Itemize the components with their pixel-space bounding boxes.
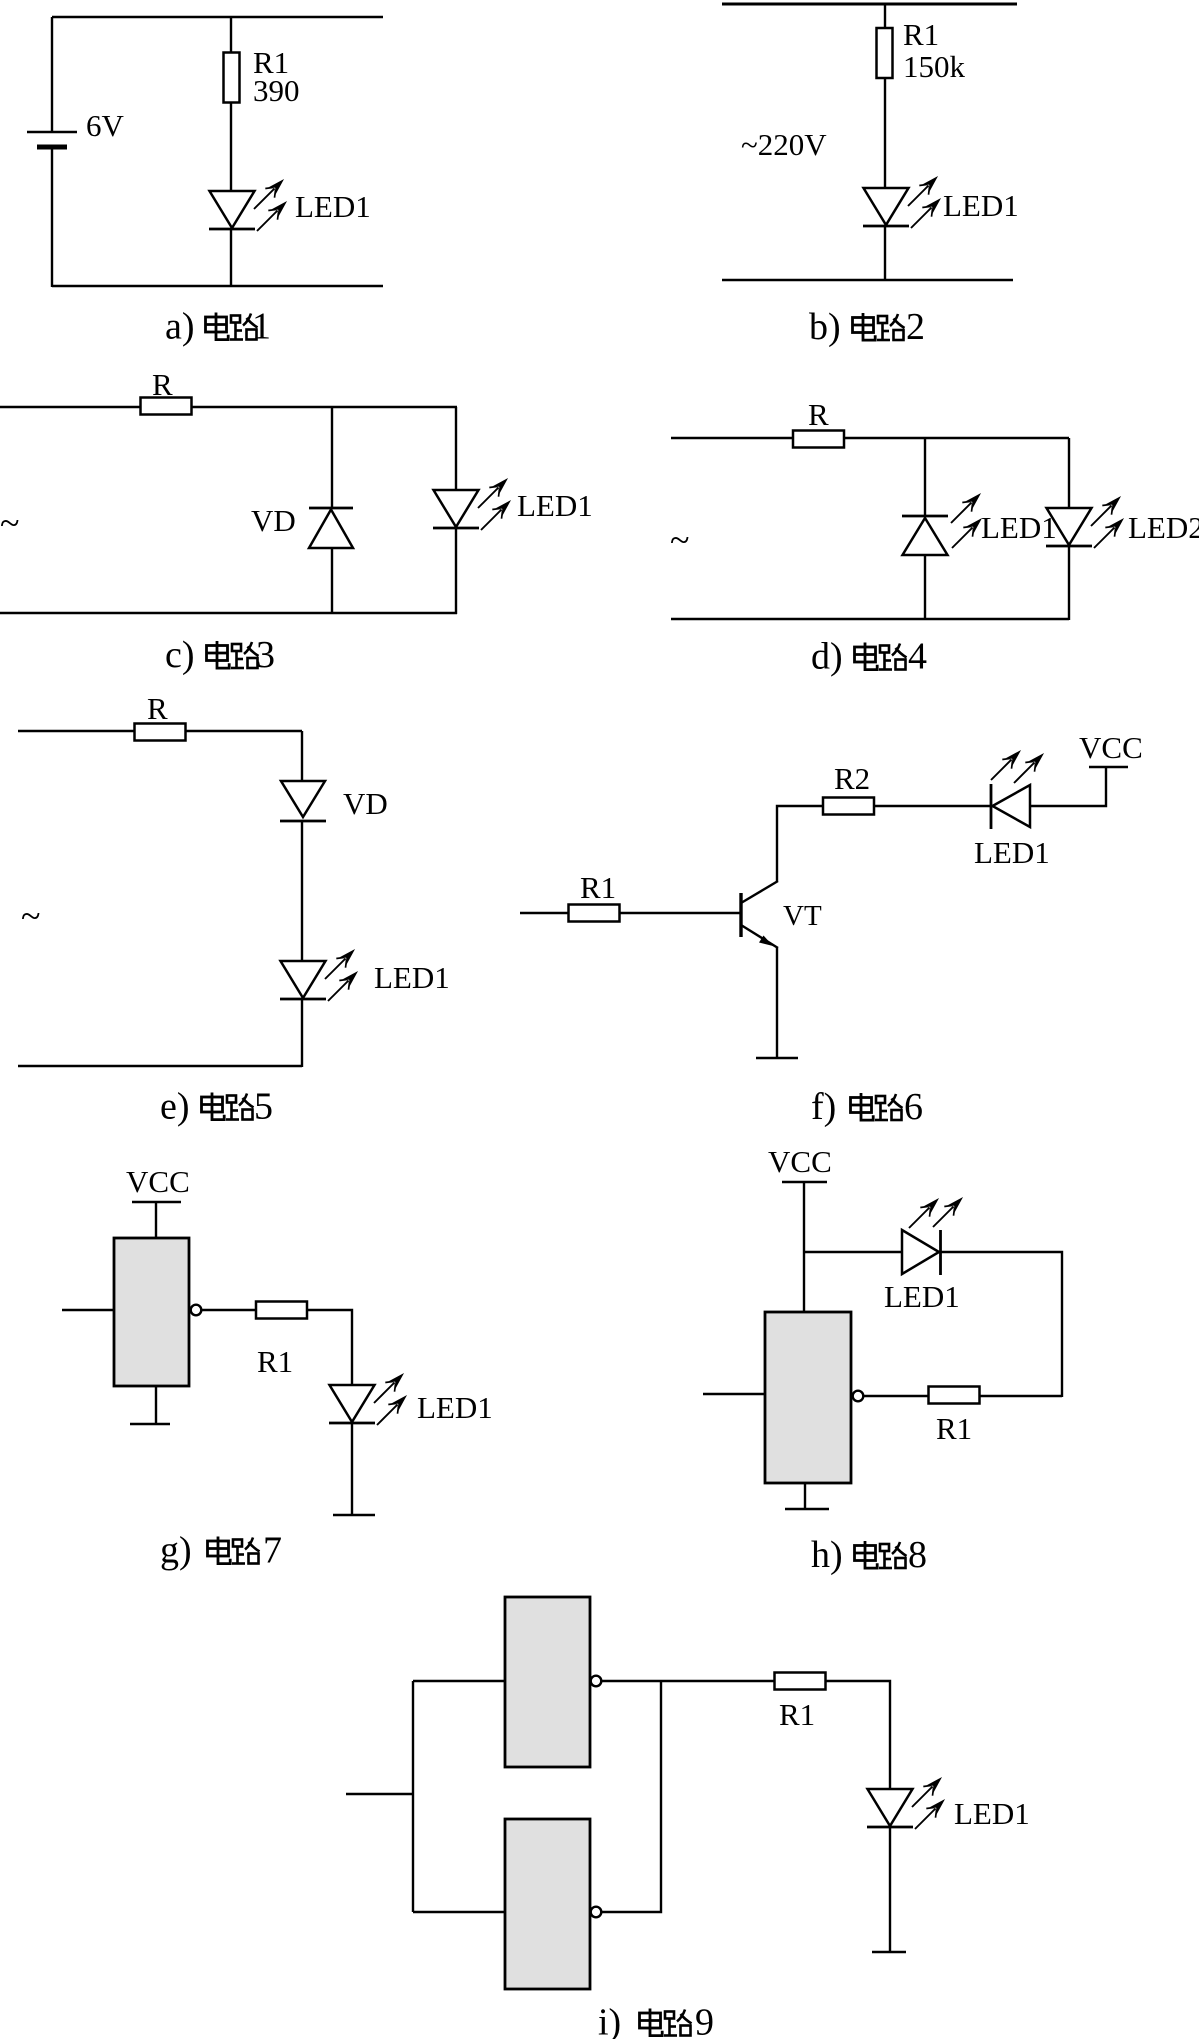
- wire R1 branch top: [230, 17, 232, 53]
- circuit d top wire left: [671, 437, 793, 439]
- svg-text:9: 9: [695, 2002, 714, 2040]
- circuit d top wire right: [844, 437, 1069, 439]
- circuit a frame: top wire: [52, 16, 383, 18]
- svg-text:~: ~: [21, 896, 40, 936]
- wire LED2 branch upper: [1068, 438, 1070, 508]
- circuit c top wire left: [0, 406, 141, 408]
- wire LED to right corner: [941, 1252, 1062, 1397]
- wire to top box input: [413, 1680, 505, 1682]
- wire LED branch upper: [455, 407, 457, 490]
- svg-text:i): i): [598, 2002, 621, 2040]
- wire VD branch upper: [331, 407, 333, 508]
- bubble bottom gate: [591, 1907, 602, 1918]
- svg-text:LED1: LED1: [884, 1279, 960, 1314]
- circuit b bottom wire: [722, 279, 1013, 281]
- wire VCC pin: [803, 1182, 805, 1312]
- circuit e bottom wire: [18, 1065, 302, 1067]
- wire VD branch lower: [331, 548, 333, 614]
- svg-text:~: ~: [0, 503, 19, 543]
- resistor R1: [877, 28, 893, 78]
- svg-text:LED1: LED1: [981, 510, 1057, 545]
- LED LED1: [209, 191, 255, 229]
- wire R1 to base: [620, 912, 740, 914]
- svg-text:LED1: LED1: [517, 488, 593, 523]
- resistor R1: [929, 1387, 980, 1404]
- svg-text:VCC: VCC: [1079, 730, 1143, 765]
- svg-text:7: 7: [263, 1530, 282, 1572]
- wire emitter down: [776, 948, 778, 1058]
- svg-text:g): g): [160, 1530, 192, 1572]
- wire bubble to R1: [201, 1309, 256, 1311]
- wire collector: [777, 806, 824, 881]
- wire R1 to corner: [979, 1395, 1062, 1397]
- resistor R2: [823, 798, 874, 815]
- transistor VT: [741, 881, 778, 948]
- LED LED1 left: [991, 784, 1030, 829]
- resistor R1: [775, 1673, 826, 1690]
- svg-text:VD: VD: [343, 786, 388, 821]
- wire LED branch lower: [455, 528, 457, 614]
- wire input: [703, 1393, 765, 1395]
- svg-text:VT: VT: [783, 900, 822, 932]
- svg-text:~: ~: [670, 520, 689, 560]
- circuit c top wire right: [192, 406, 457, 408]
- wire LED2 branch lower: [1068, 546, 1070, 620]
- svg-text:R1: R1: [580, 870, 616, 905]
- ground LED: [333, 1514, 375, 1517]
- svg-text:R1: R1: [936, 1411, 972, 1446]
- wire LED1 to ground: [351, 1423, 353, 1515]
- svg-text:150k: 150k: [903, 49, 966, 84]
- ground IC: [130, 1423, 170, 1426]
- wire left vertical upper: [51, 17, 53, 132]
- diode VD: [309, 508, 353, 548]
- circuit d bottom wire: [671, 618, 1069, 620]
- svg-text:5: 5: [254, 1086, 273, 1128]
- output bubble: [853, 1391, 864, 1402]
- resistor R1: [224, 53, 240, 103]
- LED LED2 down: [1046, 508, 1092, 546]
- wire LED1 branch upper: [924, 438, 926, 516]
- wire IC bottom pin: [155, 1386, 157, 1424]
- wire R1 to LED1: [230, 102, 232, 191]
- wire bottom bubble to junction: [602, 1681, 661, 1912]
- svg-text:d): d): [811, 636, 843, 678]
- svg-text:2: 2: [906, 306, 925, 348]
- circuit e top wire left: [18, 730, 135, 732]
- svg-text:c): c): [165, 634, 195, 676]
- wire R1 branch top: [884, 4, 886, 28]
- LED LED1: [867, 1789, 913, 1827]
- resistor R: [793, 431, 844, 448]
- svg-text:LED1: LED1: [974, 835, 1050, 870]
- wire input: [62, 1309, 114, 1311]
- VCC bar: [782, 1181, 827, 1184]
- circuit b top wire: [722, 3, 1017, 6]
- resistor R1: [256, 1302, 307, 1319]
- wire R2 to LED1: [873, 805, 991, 807]
- svg-text:b): b): [809, 306, 841, 348]
- svg-text:R1: R1: [779, 1697, 815, 1732]
- svg-text:6V: 6V: [86, 108, 125, 143]
- wire IC bottom pin: [804, 1483, 806, 1509]
- svg-text:a): a): [165, 306, 195, 348]
- svg-text:h): h): [811, 1534, 843, 1576]
- ground: [756, 1057, 798, 1060]
- wire LED branch left: [804, 1251, 902, 1253]
- svg-text:8: 8: [908, 1534, 927, 1576]
- wire top output to R1: [602, 1680, 775, 1682]
- IC box: [765, 1312, 851, 1483]
- svg-text:e): e): [160, 1086, 190, 1128]
- svg-text:R: R: [808, 397, 829, 432]
- svg-text:VCC: VCC: [768, 1144, 832, 1179]
- battery 6V: [27, 132, 77, 147]
- svg-text:R1: R1: [257, 1344, 293, 1379]
- wire left vertical: [412, 1681, 414, 1912]
- svg-text:LED2: LED2: [1128, 510, 1199, 545]
- output bubble: [191, 1305, 202, 1316]
- wire LED1 to bottom: [230, 229, 232, 287]
- svg-text:1: 1: [252, 306, 271, 348]
- VCC bar: [1089, 766, 1128, 769]
- wire R1 to LED1: [884, 78, 886, 188]
- LED LED1: [433, 490, 479, 528]
- wire LED1 to bottom: [884, 226, 886, 281]
- wire R1 to corner: [825, 1681, 890, 1789]
- svg-text:3: 3: [256, 634, 275, 676]
- ground: [872, 1951, 906, 1954]
- wire bubble to R1: [864, 1395, 929, 1397]
- svg-text:VCC: VCC: [126, 1164, 190, 1199]
- wire to bottom box input: [413, 1911, 505, 1913]
- wire VD to LED1: [301, 821, 303, 961]
- circuit e top wire right: [186, 730, 302, 732]
- VCC bar: [132, 1201, 181, 1204]
- ground IC: [785, 1508, 829, 1511]
- diode VD down: [280, 781, 326, 821]
- svg-text:390: 390: [253, 73, 300, 108]
- svg-text:R: R: [152, 367, 173, 402]
- svg-text:R1: R1: [903, 17, 939, 52]
- resistor R: [135, 724, 186, 741]
- wire LED1 branch lower: [924, 555, 926, 620]
- bubble top gate: [591, 1676, 602, 1687]
- svg-text:LED1: LED1: [417, 1390, 493, 1425]
- svg-text:~220V: ~220V: [741, 127, 827, 162]
- svg-text:6: 6: [904, 1086, 923, 1128]
- IC box: [114, 1238, 189, 1386]
- LED LED1: [280, 961, 326, 999]
- wire branch top: [301, 731, 303, 781]
- wire input stub: [520, 912, 568, 914]
- IC box top: [505, 1597, 590, 1767]
- resistor R: [141, 398, 192, 415]
- svg-text:R: R: [147, 691, 168, 726]
- wire LED1 to bottom: [301, 999, 303, 1067]
- wire input stub: [346, 1793, 413, 1795]
- svg-text:VD: VD: [251, 503, 296, 538]
- wire left vertical lower: [51, 147, 53, 287]
- LED LED1 up: [902, 516, 948, 555]
- LED LED1: [329, 1385, 375, 1423]
- svg-text:4: 4: [908, 636, 927, 678]
- svg-text:LED1: LED1: [943, 188, 1019, 223]
- svg-text:LED1: LED1: [295, 189, 371, 224]
- wire LED1 to VCC: [1030, 767, 1106, 806]
- wire R1 to corner: [307, 1310, 352, 1385]
- resistor R1: [569, 905, 620, 922]
- svg-text:LED1: LED1: [954, 1796, 1030, 1831]
- IC box bottom: [505, 1819, 590, 1989]
- circuit c bottom wire: [0, 612, 457, 614]
- circuit a bottom wire: [52, 285, 383, 287]
- LED LED1: [863, 188, 909, 226]
- LED LED1 right: [902, 1230, 941, 1275]
- svg-text:LED1: LED1: [374, 960, 450, 995]
- svg-text:f): f): [811, 1086, 836, 1128]
- svg-text:R2: R2: [834, 761, 870, 796]
- wire LED1 to ground: [889, 1827, 891, 1952]
- wire VCC pin: [155, 1202, 157, 1238]
